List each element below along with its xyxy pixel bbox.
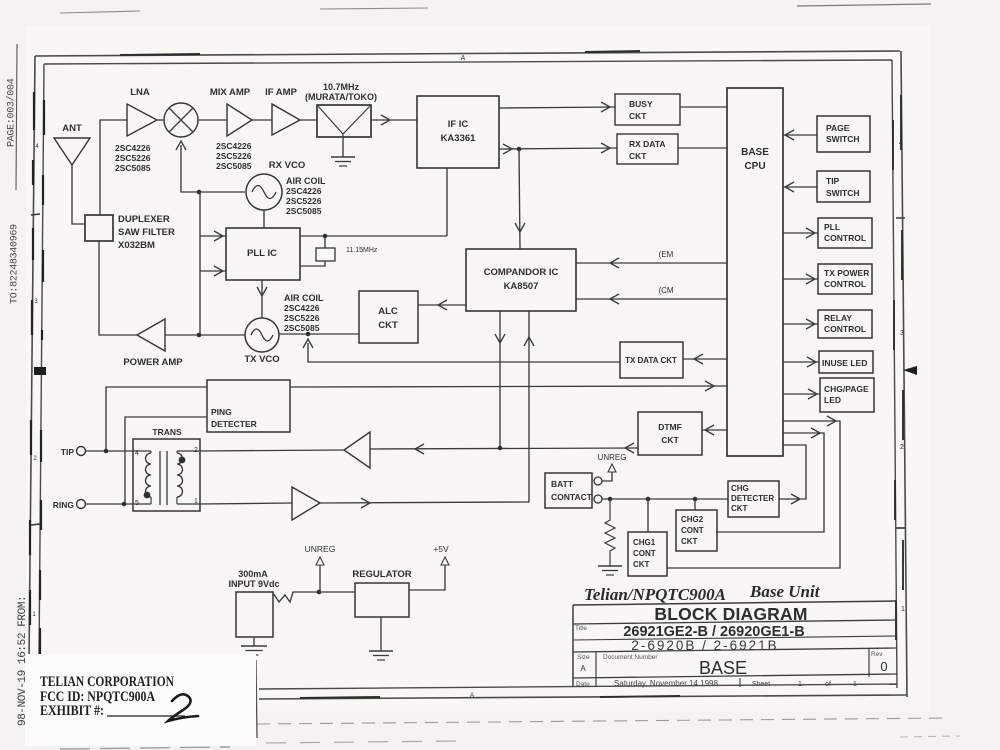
svg-text:AIR COIL: AIR COIL bbox=[284, 293, 324, 303]
wire CPU to TX DATA CKT bbox=[683, 354, 727, 364]
BUSY CKT bbox=[615, 94, 680, 125]
wire filter to ground bbox=[342, 137, 344, 157]
svg-text:CKT: CKT bbox=[731, 504, 748, 513]
wire CPU to INUSE LED bbox=[783, 357, 819, 367]
svg-text:BLOCK DIAGRAM: BLOCK DIAGRAM bbox=[654, 604, 807, 624]
svg-text:CHG: CHG bbox=[731, 484, 749, 493]
wire BASE CPU to compandor (CM) bbox=[576, 286, 727, 304]
svg-text:RX VCO: RX VCO bbox=[269, 160, 305, 171]
border dark fax dashes bbox=[30, 51, 903, 698]
ground (regulator) bbox=[369, 651, 393, 660]
wire IF IC to RX DATA CKT bbox=[499, 143, 617, 154]
wire PLL IC to TX VCO bbox=[257, 280, 267, 318]
RELAY CONTROL bbox=[818, 310, 872, 338]
TX POWER CONTROL bbox=[818, 264, 872, 294]
svg-text:1: 1 bbox=[194, 498, 198, 505]
fax header text TO:82248340969 bbox=[10, 224, 21, 304]
wire phone TX audio up to compandor bbox=[320, 311, 534, 508]
IF IC KA3361 bbox=[417, 96, 499, 168]
svg-text:2SC5226: 2SC5226 bbox=[216, 151, 252, 161]
svg-text:2SC4226: 2SC4226 bbox=[115, 143, 151, 153]
REGULATOR bbox=[352, 569, 411, 617]
BATT CONTACT terminal (lower) bbox=[594, 495, 602, 503]
ground (filter) bbox=[331, 157, 355, 166]
wire RING node to PING DETECTER bbox=[125, 417, 207, 504]
svg-text:2SC5226: 2SC5226 bbox=[284, 313, 320, 323]
svg-text:CONT: CONT bbox=[681, 526, 704, 535]
junction (demod audio) bbox=[517, 147, 522, 152]
DTMF CKT bbox=[638, 412, 702, 455]
svg-text:KA8507: KA8507 bbox=[504, 281, 539, 292]
title model numbers 26921GE2-B / 26920GE1-B bbox=[623, 624, 804, 640]
wire CPU to RELAY CONTROL bbox=[783, 319, 818, 329]
terminal TIP bbox=[61, 447, 86, 458]
title label bbox=[575, 625, 587, 632]
wire DTMF output arrow bbox=[625, 443, 634, 453]
amplifier IF AMP bbox=[265, 87, 300, 135]
svg-text:2SC5226: 2SC5226 bbox=[286, 196, 322, 206]
svg-text:Rev: Rev bbox=[871, 651, 883, 658]
svg-text:Saturday, November 14 1998: Saturday, November 14 1998 bbox=[614, 679, 718, 688]
rev cell bbox=[871, 651, 888, 674]
UNREG supply (battery) bbox=[598, 453, 627, 481]
svg-text:COMPANDOR IC: COMPANDOR IC bbox=[484, 267, 559, 278]
svg-text:+5V: +5V bbox=[433, 544, 449, 554]
svg-text:UNREG: UNREG bbox=[598, 453, 627, 462]
svg-text:CHG2: CHG2 bbox=[681, 515, 704, 524]
wire transformer to RX amp bbox=[200, 450, 344, 451]
svg-text:CONTROL: CONTROL bbox=[824, 279, 866, 289]
svg-text:4: 4 bbox=[35, 144, 39, 150]
terminal RING bbox=[53, 500, 86, 511]
CHG1 CONT CKT bbox=[628, 532, 667, 576]
svg-text:UNREG: UNREG bbox=[305, 544, 336, 554]
svg-text:TO:82248340969: TO:82248340969 bbox=[10, 224, 21, 304]
RX VCO air coil transistor values bbox=[286, 176, 326, 216]
fax header underline bbox=[16, 44, 17, 190]
wire to PLL IC input 2 bbox=[200, 266, 226, 276]
junction (unreg) bbox=[317, 590, 322, 595]
PAGE SWITCH bbox=[817, 116, 870, 152]
svg-text:1: 1 bbox=[798, 681, 802, 688]
LNA transistor values 2SC4226 2SC5226 2SC5085 bbox=[115, 143, 151, 173]
wire CPU to CHG/PAGE LED bbox=[783, 389, 820, 399]
svg-text:TIP: TIP bbox=[826, 176, 840, 186]
ground (resistor) bbox=[598, 566, 622, 575]
svg-text:RELAY: RELAY bbox=[824, 313, 852, 323]
antenna ANT bbox=[54, 123, 90, 165]
svg-text:4: 4 bbox=[135, 450, 139, 457]
wire BASE CPU to compandor (EM) bbox=[576, 250, 727, 268]
wire RX amp to DTMF line bbox=[370, 444, 638, 454]
wire CPU to PLL CONTROL bbox=[783, 228, 818, 238]
svg-text:2SC5085: 2SC5085 bbox=[216, 161, 252, 171]
junction (RX audio) bbox=[498, 446, 503, 451]
wire CHG DETECTER to CPU bbox=[779, 445, 806, 504]
fax header text PAGE:003/004 bbox=[6, 78, 18, 147]
amplifier (RX audio to phone) bbox=[344, 432, 370, 468]
wire TIP to transformer bbox=[86, 450, 133, 452]
svg-text:DETECTER: DETECTER bbox=[731, 494, 774, 503]
wire DC jack to regulator bbox=[273, 592, 355, 602]
svg-text:X032BM: X032BM bbox=[118, 240, 155, 251]
svg-text:1: 1 bbox=[853, 681, 857, 688]
svg-text:2SC4226: 2SC4226 bbox=[216, 141, 252, 151]
oscillator TX VCO bbox=[244, 318, 279, 365]
transformer pin 4 bbox=[135, 450, 139, 457]
wire TIP SWITCH to CPU bbox=[783, 182, 817, 192]
wire TX VCO to ALC bbox=[279, 333, 359, 335]
wire duplexer to LNA input bbox=[100, 120, 127, 215]
svg-text:A: A bbox=[470, 693, 474, 699]
FCC exhibit sticker bbox=[25, 654, 256, 746]
wire to PLL IC input 1 bbox=[200, 231, 226, 241]
junction (battery bus / resistor) bbox=[608, 497, 613, 502]
ALC CKT bbox=[359, 291, 418, 343]
document number label bbox=[603, 654, 658, 661]
svg-text:CONT: CONT bbox=[633, 549, 656, 558]
svg-text:2: 2 bbox=[33, 456, 37, 462]
INUSE LED bbox=[819, 351, 873, 373]
drawing name BASE bbox=[699, 658, 747, 678]
wire CPU to DTMF bbox=[702, 425, 727, 435]
svg-text:LED: LED bbox=[824, 395, 841, 405]
amplifier POWER AMP bbox=[123, 319, 183, 368]
TELIAN CORPORATION text bbox=[40, 674, 174, 719]
sticker edge artifact bbox=[256, 660, 257, 738]
svg-text:2: 2 bbox=[900, 444, 904, 451]
svg-text:BUSY: BUSY bbox=[629, 99, 653, 109]
wire RX VCO to PLL IC bbox=[263, 210, 265, 228]
bottom scan artifact dashed line bbox=[60, 718, 960, 749]
svg-text:CKT: CKT bbox=[681, 537, 698, 546]
junction (TIP) bbox=[104, 449, 109, 454]
svg-text:Telian/NPQTC900A: Telian/NPQTC900A bbox=[584, 585, 726, 604]
wire PLL IC to IF IC (reference line) bbox=[300, 168, 447, 236]
sheet inner border bbox=[39, 60, 897, 689]
ceramic filter 10.7MHz MURATA/TOKO bbox=[305, 82, 377, 137]
wire transformer to TX amp bbox=[200, 503, 292, 504]
amplifier (phone to TX) bbox=[292, 487, 320, 520]
svg-text:EXHIBIT #:: EXHIBIT #: bbox=[40, 703, 104, 719]
junction (LO line) bbox=[197, 190, 202, 195]
svg-text:TRANS: TRANS bbox=[152, 427, 182, 437]
CHG DETECTER CKT bbox=[728, 481, 779, 517]
svg-text:RX DATA: RX DATA bbox=[629, 139, 666, 149]
svg-text:DTMF: DTMF bbox=[658, 422, 682, 432]
wire mixer to MIX AMP bbox=[198, 119, 227, 121]
wire regulator to ground bbox=[380, 617, 382, 651]
transformer phasing dot (secondary) bbox=[179, 457, 186, 464]
svg-text:0: 0 bbox=[880, 659, 887, 674]
crystal 11.15MHz bbox=[300, 236, 378, 266]
CHG2 CONT CKT bbox=[676, 510, 717, 551]
svg-text:BASE: BASE bbox=[741, 147, 769, 158]
svg-text:CONTROL: CONTROL bbox=[824, 233, 866, 243]
svg-text:PLL IC: PLL IC bbox=[247, 248, 277, 259]
MIX AMP transistor values 2SC4226 2SC5226 2SC5085 bbox=[216, 141, 252, 171]
svg-text:(EM: (EM bbox=[659, 250, 674, 259]
wire IF IC to BUSY CKT bbox=[499, 102, 615, 112]
wire compandor RX audio down to phone line bbox=[495, 311, 505, 448]
svg-text:of: of bbox=[825, 681, 831, 688]
fax header text 98-NOV-19 16:52 FROM: bbox=[17, 596, 29, 726]
title document numbers 2-6920B / 2-6921B bbox=[631, 638, 778, 653]
wire BUSY CKT to BASE CPU bbox=[680, 106, 727, 108]
CHG/PAGE LED bbox=[820, 378, 874, 412]
wire RX VCO to mixer LO bbox=[176, 141, 245, 192]
PLL CONTROL bbox=[818, 218, 872, 248]
svg-text:AIR COIL: AIR COIL bbox=[286, 176, 326, 186]
svg-text:TX POWER: TX POWER bbox=[824, 268, 869, 278]
title BLOCK DIAGRAM bbox=[654, 604, 807, 624]
top scan artifact dashes bbox=[60, 4, 931, 13]
+5V supply output bbox=[409, 544, 449, 590]
amplifier LNA bbox=[127, 87, 157, 136]
wire filter to IF IC bbox=[371, 115, 417, 125]
size cell bbox=[577, 654, 590, 673]
svg-text:A: A bbox=[580, 664, 586, 673]
svg-text:TELIAN CORPORATION: TELIAN CORPORATION bbox=[40, 674, 174, 690]
svg-text:POWER AMP: POWER AMP bbox=[123, 357, 183, 368]
junction (TX line / PLL feed) bbox=[197, 333, 202, 338]
transformer pin 5 bbox=[135, 500, 139, 507]
BASE CPU bbox=[727, 88, 783, 456]
svg-text:5: 5 bbox=[135, 500, 139, 507]
wire antenna to duplexer bbox=[72, 165, 85, 224]
svg-text:REGULATOR: REGULATOR bbox=[352, 569, 411, 580]
svg-text:1: 1 bbox=[901, 606, 905, 613]
wire CPU to CHG1 CONT CKT (loop) bbox=[667, 416, 840, 568]
svg-text:2-6920B / 2-6921B: 2-6920B / 2-6921B bbox=[631, 638, 778, 653]
border zone numbers and marks bbox=[31, 55, 917, 699]
svg-text:MIX AMP: MIX AMP bbox=[210, 87, 251, 98]
TIP SWITCH bbox=[817, 171, 870, 202]
wire TX DATA CKT to TX VCO line bbox=[303, 339, 620, 362]
svg-text:PAGE:003/004: PAGE:003/004 bbox=[6, 78, 18, 147]
svg-text:3: 3 bbox=[34, 299, 38, 305]
svg-text:PLL: PLL bbox=[824, 222, 840, 232]
svg-text:2SC5085: 2SC5085 bbox=[286, 206, 322, 216]
oscillator RX VCO bbox=[246, 160, 305, 210]
wire battery bus bbox=[602, 498, 728, 500]
svg-text:Base Unit: Base Unit bbox=[749, 582, 821, 601]
BATT CONTACT bbox=[545, 473, 593, 508]
svg-text:ALC: ALC bbox=[378, 306, 398, 317]
svg-text:CHG/PAGE: CHG/PAGE bbox=[824, 384, 869, 394]
svg-text:2SC4226: 2SC4226 bbox=[286, 186, 322, 196]
wire CPU to CHG2 CONT CKT (loop) bbox=[716, 428, 824, 532]
wire CPU to TX POWER CONTROL bbox=[783, 274, 818, 284]
svg-text:TX VCO: TX VCO bbox=[244, 354, 279, 365]
wire LO junction down to TX line bbox=[199, 192, 201, 334]
svg-text:2SC4226: 2SC4226 bbox=[284, 303, 320, 313]
svg-text:BASE: BASE bbox=[699, 658, 747, 678]
wire power amp to duplexer bbox=[99, 241, 137, 335]
svg-text:300mA: 300mA bbox=[238, 569, 268, 579]
svg-text:Size: Size bbox=[577, 654, 590, 661]
svg-text:CKT: CKT bbox=[629, 111, 647, 121]
svg-text:CKT: CKT bbox=[633, 560, 650, 569]
svg-text:11.15MHz: 11.15MHz bbox=[346, 247, 378, 254]
svg-text:A: A bbox=[461, 55, 466, 62]
svg-text:PING: PING bbox=[211, 407, 232, 417]
wire MIX AMP to IF AMP bbox=[252, 119, 272, 121]
RX DATA CKT bbox=[617, 134, 678, 164]
title block frame bbox=[573, 601, 897, 687]
TX DATA CKT bbox=[620, 342, 683, 378]
junction (battery bus / CHG1) bbox=[646, 497, 651, 502]
svg-text:1: 1 bbox=[32, 612, 36, 618]
transformer TRANS bbox=[133, 427, 200, 511]
resistor (battery sense) bbox=[605, 499, 615, 566]
ground (DC input) bbox=[241, 646, 267, 655]
wire battery bus to CHG1 bbox=[647, 499, 649, 532]
svg-text:SAW FILTER: SAW FILTER bbox=[118, 227, 175, 238]
svg-text:INUSE LED: INUSE LED bbox=[822, 358, 867, 368]
junction (RING) bbox=[122, 502, 127, 507]
wire IF AMP to ceramic filter bbox=[300, 119, 317, 121]
wire RING to transformer bbox=[86, 503, 133, 505]
mixer bbox=[164, 103, 198, 137]
wire PING DETECTER to CPU bbox=[290, 381, 727, 391]
svg-text:CONTROL: CONTROL bbox=[824, 324, 866, 334]
junction (crystal) bbox=[323, 234, 328, 239]
svg-text:CKT: CKT bbox=[378, 320, 398, 331]
PLL IC bbox=[226, 228, 300, 280]
svg-text:2SC5085: 2SC5085 bbox=[115, 163, 151, 173]
duplexer SAW filter X032BM bbox=[85, 214, 175, 251]
svg-text:SWITCH: SWITCH bbox=[826, 134, 860, 144]
PING DETECTER bbox=[207, 380, 290, 432]
wire TX VCO to power amp bbox=[165, 334, 245, 336]
junction (TX data feed) bbox=[306, 332, 311, 337]
TX VCO air coil transistor values bbox=[284, 293, 324, 333]
compandor IC KA8507 bbox=[466, 249, 576, 311]
wire RX DATA CKT to BASE CPU bbox=[678, 147, 727, 149]
svg-text:2: 2 bbox=[194, 447, 198, 454]
svg-text:3: 3 bbox=[900, 330, 904, 337]
svg-text:10.7MHz: 10.7MHz bbox=[323, 82, 360, 92]
svg-text:CHG1: CHG1 bbox=[633, 538, 656, 547]
svg-text:SWITCH: SWITCH bbox=[826, 188, 860, 198]
handwritten exhibit number 2 bbox=[168, 694, 198, 721]
svg-text:PAGE: PAGE bbox=[826, 123, 850, 133]
svg-text:4: 4 bbox=[899, 140, 903, 147]
svg-text:IF IC: IF IC bbox=[448, 119, 469, 130]
amplifier MIX AMP bbox=[210, 87, 252, 136]
svg-text:DUPLEXER: DUPLEXER bbox=[118, 214, 170, 225]
wire compandor to ALC bbox=[418, 300, 466, 310]
svg-text:Title: Title bbox=[575, 625, 587, 632]
svg-text:(MURATA/TOKO): (MURATA/TOKO) bbox=[305, 92, 377, 102]
svg-text:LNA: LNA bbox=[130, 87, 150, 98]
svg-text:ANT: ANT bbox=[62, 123, 82, 134]
junction (battery bus / CHG2) bbox=[693, 497, 698, 502]
svg-text:IF AMP: IF AMP bbox=[265, 87, 298, 98]
exhibit underline bbox=[107, 715, 185, 717]
svg-text:(CM: (CM bbox=[658, 286, 673, 295]
svg-text:BATT: BATT bbox=[551, 479, 574, 489]
wire DC input to ground bbox=[253, 637, 255, 646]
svg-text:CKT: CKT bbox=[661, 435, 679, 445]
svg-text:2SC5085: 2SC5085 bbox=[284, 323, 320, 333]
svg-text:KA3361: KA3361 bbox=[441, 133, 477, 144]
wire TIP node to PING DETECTER bbox=[106, 387, 207, 451]
transformer pin 1 bbox=[194, 498, 198, 505]
svg-text:Sheet: Sheet bbox=[752, 681, 770, 688]
wire IF IC audio to compandor bbox=[515, 149, 525, 249]
handwritten note Telian/NPQTC900A Base Unit bbox=[584, 582, 821, 604]
transformer pin 2 bbox=[194, 447, 198, 454]
transformer phasing dot (primary) bbox=[144, 492, 151, 499]
svg-text:TX DATA CKT: TX DATA CKT bbox=[625, 356, 677, 365]
wire PAGE SWITCH to CPU bbox=[783, 130, 817, 140]
BATT CONTACT terminal (upper) bbox=[594, 477, 602, 485]
date row bbox=[576, 679, 857, 688]
svg-text:INPUT 9Vdc: INPUT 9Vdc bbox=[228, 579, 279, 589]
sheet outer border bbox=[29, 51, 907, 699]
wire battery bus to CHG2 bbox=[694, 499, 696, 510]
DC input 300mA INPUT 9Vdc bbox=[228, 569, 279, 637]
svg-text:RING: RING bbox=[53, 500, 75, 510]
svg-text:Document Number: Document Number bbox=[603, 654, 658, 661]
svg-text:TIP: TIP bbox=[61, 447, 75, 457]
svg-text:DETECTER: DETECTER bbox=[211, 419, 257, 429]
svg-text:CONTACT: CONTACT bbox=[551, 492, 593, 502]
UNREG supply (power input) bbox=[305, 544, 336, 592]
svg-text:CPU: CPU bbox=[744, 161, 765, 172]
wire LNA to mixer bbox=[157, 119, 164, 121]
svg-text:CKT: CKT bbox=[629, 151, 647, 161]
svg-text:2SC5226: 2SC5226 bbox=[115, 153, 151, 163]
svg-text:Date: Date bbox=[576, 681, 590, 688]
